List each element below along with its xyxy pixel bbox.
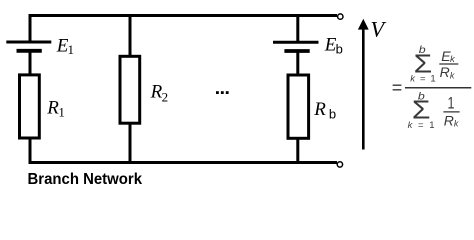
main fraction bar (405, 87, 471, 89)
svg-text:k = 1: k = 1 (410, 73, 435, 84)
denominator small fraction bar (443, 111, 459, 113)
svg-text:b: b (418, 92, 425, 103)
svg-text:R: R (444, 112, 454, 128)
svg-text:2: 2 (162, 89, 169, 104)
numerator small fraction bar (439, 63, 458, 65)
wire branch2 top (129, 14, 132, 57)
svg-text:b: b (336, 41, 343, 56)
denominator sigma (412, 96, 431, 124)
svg-text:R: R (313, 99, 326, 120)
numerator sigma (414, 49, 433, 77)
battery E1 (6, 42, 51, 51)
ellipsis dots (216, 91, 229, 94)
resistor R1 (20, 75, 40, 138)
wire Rb to bottom rail (296, 138, 299, 164)
numerator sigma upper limit b (419, 45, 426, 56)
denominator sigma upper limit b (418, 92, 425, 103)
battery Eb (273, 42, 319, 51)
svg-text:b: b (419, 45, 426, 56)
svg-text:V: V (370, 16, 386, 41)
formula (392, 45, 472, 131)
svg-text:R: R (440, 64, 450, 80)
bottom rail wire (29, 161, 338, 164)
wire branch1 top (29, 14, 32, 42)
wire battery E1 to R1 (29, 51, 32, 75)
top rail wire (29, 14, 338, 17)
wire battery Eb to Rb (296, 51, 299, 75)
svg-text:k: k (450, 70, 455, 80)
wire branch b top (296, 14, 299, 42)
resistor Rb (288, 75, 309, 138)
wire R2 to bottom rail (129, 123, 132, 164)
svg-text:Branch Network: Branch Network (28, 171, 143, 188)
svg-text:1: 1 (448, 95, 455, 113)
wire R1 to bottom rail (29, 138, 32, 164)
resistor R2 (120, 56, 140, 123)
denominator small fraction 1 (448, 95, 455, 113)
voltage arrow V (358, 19, 369, 150)
svg-text:k = 1: k = 1 (408, 120, 435, 131)
terminal bottom right (337, 162, 342, 167)
svg-text:R: R (46, 98, 59, 119)
svg-text:1: 1 (58, 105, 65, 120)
svg-text:b: b (329, 106, 336, 121)
svg-text:1: 1 (68, 42, 75, 57)
terminal top right (338, 14, 343, 19)
svg-text:k: k (454, 119, 459, 129)
svg-text:=: = (392, 77, 403, 97)
